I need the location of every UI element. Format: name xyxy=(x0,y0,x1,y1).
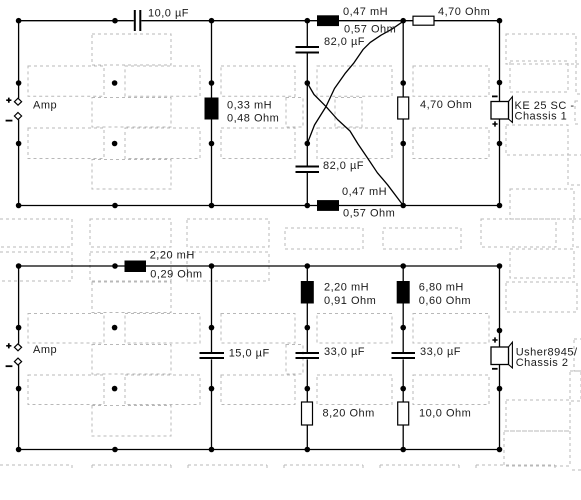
svg-text:0,91 Ohm: 0,91 Ohm xyxy=(324,295,376,307)
svg-text:4,70 Ohm: 4,70 Ohm xyxy=(438,6,490,18)
svg-text:33,0 µF: 33,0 µF xyxy=(420,346,461,358)
svg-text:0,33 mH: 0,33 mH xyxy=(227,100,272,112)
svg-text:0,57 Ohm: 0,57 Ohm xyxy=(344,23,396,35)
svg-text:0,57 Ohm: 0,57 Ohm xyxy=(343,207,395,219)
svg-text:82,0 µF: 82,0 µF xyxy=(323,160,364,172)
svg-text:33,0 µF: 33,0 µF xyxy=(324,346,365,358)
svg-text:0,47 mH: 0,47 mH xyxy=(342,186,387,198)
svg-text:10,0 Ohm: 10,0 Ohm xyxy=(419,407,471,419)
svg-text:0,60 Ohm: 0,60 Ohm xyxy=(419,295,471,307)
svg-text:10,0 µF: 10,0 µF xyxy=(148,7,189,19)
svg-text:Chassis 1: Chassis 1 xyxy=(515,111,568,123)
svg-text:0,48 Ohm: 0,48 Ohm xyxy=(227,112,279,124)
svg-text:82,0 µF: 82,0 µF xyxy=(324,36,365,48)
svg-text:15,0 µF: 15,0 µF xyxy=(229,348,270,360)
svg-text:2,20 mH: 2,20 mH xyxy=(150,249,195,261)
svg-text:8,20 Ohm: 8,20 Ohm xyxy=(323,407,375,419)
svg-text:0,29 Ohm: 0,29 Ohm xyxy=(150,268,202,280)
svg-text:Amp: Amp xyxy=(33,344,57,356)
svg-text:6,80 mH: 6,80 mH xyxy=(419,281,464,293)
svg-text:4,70 Ohm: 4,70 Ohm xyxy=(420,99,472,111)
svg-text:0,47 mH: 0,47 mH xyxy=(343,6,388,18)
svg-text:Chassis 2: Chassis 2 xyxy=(516,357,569,369)
svg-text:2,20 mH: 2,20 mH xyxy=(324,281,369,293)
svg-text:Amp: Amp xyxy=(33,99,57,111)
